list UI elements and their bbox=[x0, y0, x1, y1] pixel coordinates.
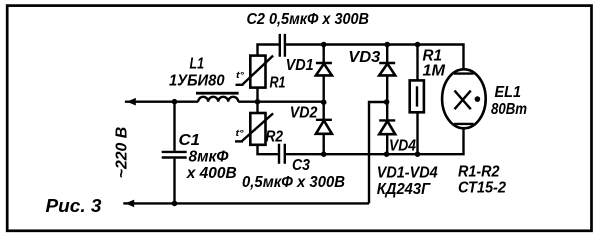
svg-text:Рис. 3: Рис. 3 bbox=[46, 195, 103, 216]
svg-text:1УБИ80: 1УБИ80 bbox=[169, 72, 225, 89]
junction dot C1 bottom bbox=[172, 201, 178, 207]
junction dot R1 1M top bbox=[415, 42, 421, 48]
node lower input arrow bbox=[123, 200, 134, 208]
diode VD2 bbox=[316, 102, 332, 154]
diode VD3 bbox=[379, 45, 395, 103]
lamp EL1 bbox=[442, 69, 486, 128]
capacitor C2 bbox=[280, 34, 285, 57]
diode VD4 bbox=[379, 102, 395, 154]
svg-text:R1-R2: R1-R2 bbox=[458, 163, 500, 180]
junction dot VD3 top bbox=[384, 42, 390, 48]
svg-text:1M: 1M bbox=[423, 62, 446, 79]
junction dot R1-R2 node bbox=[255, 99, 261, 105]
resistor R1 1M bbox=[410, 45, 424, 155]
diode VD1 bbox=[316, 45, 332, 103]
wire upper input line bbox=[133, 100, 198, 102]
svg-text:x 400В: x 400В bbox=[186, 165, 237, 182]
capacitor C3 bbox=[279, 144, 285, 164]
junction dot R1 1M bottom bbox=[415, 151, 421, 157]
junction dot VD3-VD4 midpoint bbox=[384, 99, 390, 105]
svg-text:СТ15-2: СТ15-2 bbox=[458, 179, 506, 196]
svg-text:C3: C3 bbox=[292, 157, 310, 174]
inductor L1 coil bbox=[198, 97, 238, 102]
svg-text:R2: R2 bbox=[266, 128, 284, 145]
wire node A to bridge midpoint bbox=[258, 100, 324, 102]
wire R2 bottom to C3 bbox=[258, 145, 278, 154]
svg-text:C2 0,5мкФ х 300В: C2 0,5мкФ х 300В bbox=[247, 11, 370, 28]
svg-text:8мкФ: 8мкФ bbox=[189, 149, 229, 166]
wire top rail from C2 corner down to R1 top bbox=[258, 45, 279, 56]
capacitor C1 bbox=[162, 102, 187, 204]
svg-text:VD4: VD4 bbox=[389, 138, 416, 155]
inductor L1 core bar bbox=[196, 92, 239, 95]
svg-text:VD3: VD3 bbox=[348, 49, 380, 66]
wire coil to node A bbox=[238, 100, 257, 102]
svg-text:~220 В: ~220 В bbox=[114, 127, 131, 179]
svg-text:80Вт: 80Вт bbox=[491, 101, 527, 118]
svg-text:КД243Г: КД243Г bbox=[377, 181, 432, 198]
svg-text:t°: t° bbox=[236, 128, 244, 138]
junction dot VD4 bottom bbox=[384, 151, 390, 157]
junction dot C1 top bbox=[172, 99, 178, 105]
junction dot VD2 bottom bbox=[321, 151, 327, 157]
svg-text:VD1: VD1 bbox=[286, 57, 314, 74]
wire riser to VD3-VD4 midpoint bbox=[369, 102, 387, 203]
svg-text:C1: C1 bbox=[179, 132, 201, 149]
svg-text:0,5мкФ х 300В: 0,5мкФ х 300В bbox=[242, 174, 345, 191]
junction dot VD1 top bbox=[321, 42, 327, 48]
wire R1 to R2 bbox=[256, 88, 258, 113]
svg-text:L1: L1 bbox=[190, 56, 205, 73]
node upper input arrow bbox=[125, 98, 136, 106]
svg-text:R1: R1 bbox=[270, 74, 286, 91]
svg-text:EL1: EL1 bbox=[495, 84, 522, 101]
svg-text:VD1-VD4: VD1-VD4 bbox=[377, 165, 438, 182]
thermistor R1 bbox=[236, 56, 274, 88]
wire top rail C2 to lamp corner bbox=[286, 45, 464, 74]
svg-text:t°: t° bbox=[236, 70, 244, 80]
junction dot VD1-VD2 midpoint bbox=[321, 99, 327, 105]
svg-text:VD2: VD2 bbox=[290, 104, 318, 121]
wire bottom rail C3 to lamp corner bbox=[286, 124, 464, 154]
wire bottom rail bbox=[131, 202, 369, 204]
thermistor R2 bbox=[235, 113, 273, 145]
